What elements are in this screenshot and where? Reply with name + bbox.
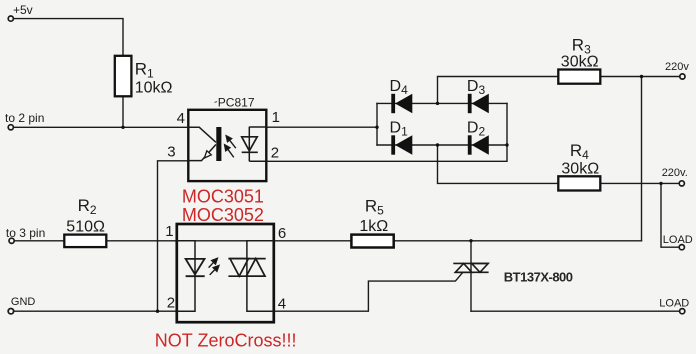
wire bridge bottom row [377, 144, 507, 146]
svg-text:to 3 pin: to 3 pin [6, 226, 45, 240]
junction dot GND / PC817 pin3 [156, 310, 159, 313]
wire bridge right vertical to PC817 pin2 [267, 103, 508, 161]
junction dot triac gate net [469, 239, 472, 242]
junction dot pin1/bridge [375, 126, 378, 129]
svg-text:LOAD: LOAD [663, 234, 693, 246]
wire MOC pin4 to triac gate [274, 272, 463, 311]
svg-text:1kΩ: 1kΩ [359, 218, 388, 235]
resistor R1 [115, 56, 132, 97]
svg-text:3: 3 [167, 143, 175, 160]
svg-text:1: 1 [272, 109, 280, 126]
optotriac U2 MOC box [177, 224, 274, 322]
wire +5v horizontal and down to R1 [14, 19, 123, 56]
wire to 2 pin [14, 126, 188, 128]
MOC inner left leads [177, 241, 195, 311]
junction dot R4 output [659, 182, 662, 185]
wire bridge mid down to R4 [438, 145, 559, 183]
resistor R3 [558, 70, 600, 84]
wire bridge top row [377, 102, 507, 104]
terminal LOAD 2 [680, 309, 685, 314]
LED inside PC817 [242, 127, 267, 162]
svg-text:6: 6 [278, 225, 286, 242]
svg-text:PC817: PC817 [218, 96, 255, 110]
phototransistor collector [188, 127, 216, 142]
diode D3 [468, 94, 489, 113]
wire triac main vertical [470, 241, 472, 311]
svg-text:10kΩ: 10kΩ [135, 80, 173, 97]
junction dot R3 output [640, 75, 643, 78]
svg-text:30kΩ: 30kΩ [561, 53, 599, 70]
wire R4 node down to LOAD1 [661, 183, 678, 247]
wire PC817 pin3 down to GND net [158, 161, 189, 311]
resistor R4 [558, 176, 600, 190]
diode D4 [391, 94, 412, 113]
junction dot R1/to2pin [121, 126, 124, 129]
wire R4 to 220v. terminal [601, 182, 679, 184]
diode D2 [468, 135, 489, 154]
svg-text:+5v: +5v [13, 3, 33, 17]
terminal 220v. bottom [679, 181, 684, 186]
svg-text:2: 2 [271, 145, 279, 162]
wire R1 bottom to to-2-pin net [122, 97, 124, 128]
svg-text:4: 4 [177, 110, 185, 127]
svg-text:4: 4 [278, 295, 286, 312]
resistor R5 [351, 235, 393, 248]
svg-text:GND: GND [11, 296, 36, 308]
svg-text:2: 2 [167, 294, 175, 311]
terminal GND [8, 309, 13, 314]
resistor R2 [64, 235, 106, 248]
svg-text:510Ω: 510Ω [66, 218, 105, 235]
wire GND [14, 310, 176, 312]
optocoupler U1 PC817 box [188, 110, 266, 181]
wire right riser x641 from R3 node down [641, 77, 643, 241]
terminal 220v top [680, 74, 685, 79]
terminal +5v [8, 16, 13, 21]
svg-text:30kΩ: 30kΩ [561, 161, 599, 178]
svg-text:BT137X-800: BT137X-800 [504, 269, 573, 284]
wire R5 output to right riser [394, 240, 642, 242]
svg-text:MOC3052: MOC3052 [182, 205, 264, 225]
wire bridge mid up to R3 [438, 77, 559, 104]
diode D1 [391, 135, 412, 154]
terminal to 3 pin [9, 238, 14, 243]
MOC triac symbol [228, 259, 265, 277]
phototransistor emitter with open arrowhead [188, 145, 216, 161]
wire bridge left vertical [376, 103, 378, 145]
svg-text:220v: 220v [665, 61, 689, 73]
MOC light arrows [209, 258, 219, 275]
light arrows toward transistor [225, 136, 236, 158]
svg-text:220v.: 220v. [662, 167, 688, 179]
wire to 3 pin to R2 [15, 240, 351, 242]
svg-text:to 2 pin: to 2 pin [5, 111, 44, 125]
wire R3 to 220v terminal [601, 76, 680, 78]
svg-text:LOAD: LOAD [659, 297, 689, 309]
junction dot bridge bottom right [505, 143, 508, 146]
svg-text:MOC3051: MOC3051 [182, 187, 264, 207]
phototransistor base bar [216, 127, 221, 161]
terminal LOAD 1 [679, 245, 684, 250]
MOC LED [186, 259, 205, 276]
terminal to 2 pin [8, 125, 13, 130]
MOC inner right leads [247, 241, 274, 311]
junction dot bridge bottom mid [436, 143, 439, 146]
junction dot bridge top mid [436, 102, 439, 105]
svg-text:NOT ZeroCross!!!: NOT ZeroCross!!! [155, 330, 297, 350]
wire triac MT2 to LOAD2 [471, 310, 679, 312]
triac Q1 BT137X-800 [453, 263, 488, 272]
wire PC817 pin1 to bridge [267, 126, 378, 128]
svg-text:1: 1 [165, 223, 173, 240]
